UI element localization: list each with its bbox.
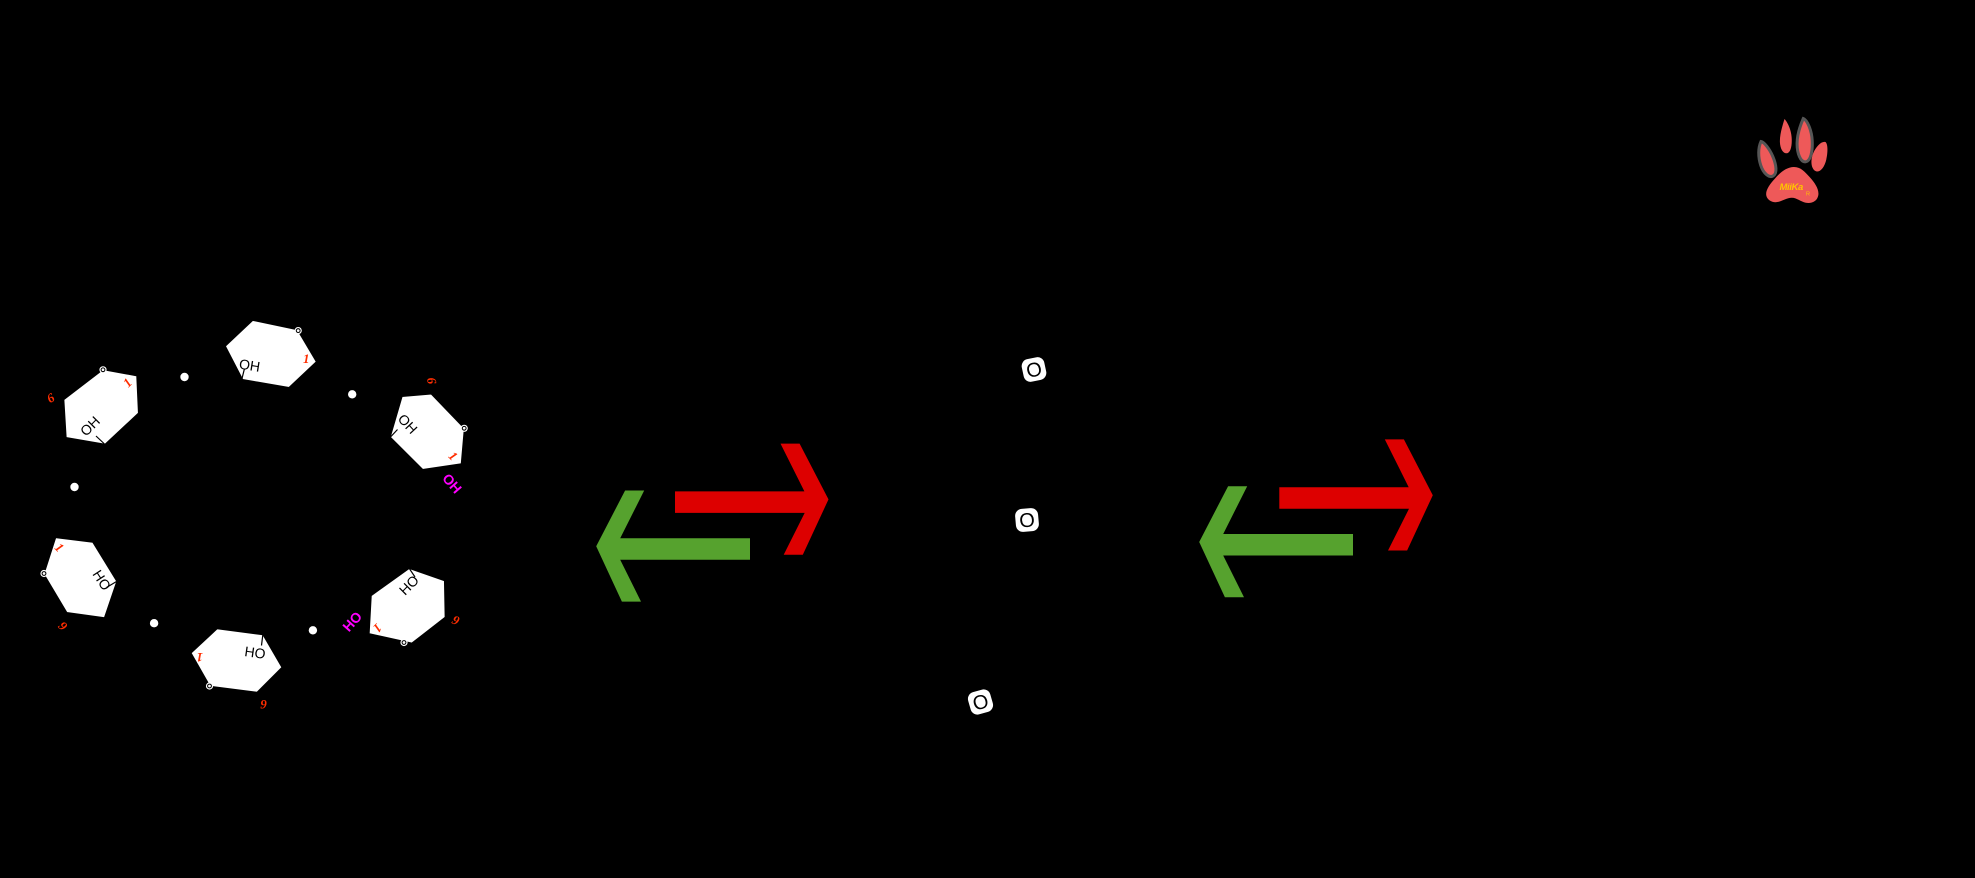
svg-text:1: 1 [303, 351, 310, 366]
bond C2-OH unit E [410, 569, 416, 577]
paw print logo (author signature) [1759, 119, 1828, 204]
ring oxygen unit D [206, 682, 213, 689]
forward reaction arrow (red, equilibrium pair 2) [1279, 439, 1433, 550]
paw toe 1 (leftmost, outlined) [1759, 142, 1776, 177]
glucose unit C (left lower) [40, 537, 117, 634]
bond C2-OH unit D [262, 635, 263, 646]
ring oxygen unit B [99, 366, 106, 373]
svg-text:R: R [1806, 192, 1810, 198]
glucose unit A (top) [225, 320, 317, 388]
glycosidic oxygen dot C-D [150, 619, 158, 627]
glycosidic oxygen dot D-E [309, 626, 317, 634]
ring oxygen unit C [40, 570, 47, 577]
svg-text:MiiKa: MiiKa [1780, 182, 1803, 193]
glycosidic oxygen dot A-B [180, 373, 188, 381]
bond C2-OH unit A [242, 369, 245, 381]
svg-text:6: 6 [260, 697, 267, 712]
glycosidic oxygen dot A-F [348, 390, 356, 398]
ring oxygen unit E [400, 639, 407, 646]
ring oxygen unit F [461, 425, 468, 432]
paw toe 4 (rightmost) [1811, 142, 1827, 172]
glucose unit E (bottom right) [369, 568, 462, 646]
glucose unit D (bottom) [191, 629, 282, 712]
glucose unit B (upper left) [44, 366, 139, 444]
glycosidic O label 1 (chain top) [1020, 356, 1047, 384]
glucose unit F (right upper) [390, 376, 468, 469]
svg-text:O: O [1018, 509, 1035, 532]
bond C2-OH unit C [107, 582, 117, 588]
bond C2-OH unit F [391, 430, 398, 438]
bond C2-OH unit B [96, 436, 105, 444]
svg-text:HO: HO [244, 643, 267, 662]
paw toe 2 [1780, 119, 1792, 153]
svg-text:1: 1 [196, 650, 203, 665]
glycosidic O label 3 (chain bottom) [966, 688, 995, 717]
ring oxygen unit A [295, 327, 302, 334]
reverse reaction arrow (green, equilibrium pair 1) [596, 491, 750, 602]
paw toe 3 (tall center, outlined) [1797, 119, 1812, 162]
glycosidic O label 2 (chain middle) [1015, 508, 1040, 533]
paw main pad [1766, 167, 1818, 203]
glycosidic oxygen dot B-C [70, 483, 78, 491]
reverse reaction arrow (green, equilibrium pair 2) [1199, 486, 1353, 597]
svg-text:OH: OH [238, 356, 261, 375]
forward reaction arrow (red, equilibrium pair 1) [675, 444, 829, 555]
